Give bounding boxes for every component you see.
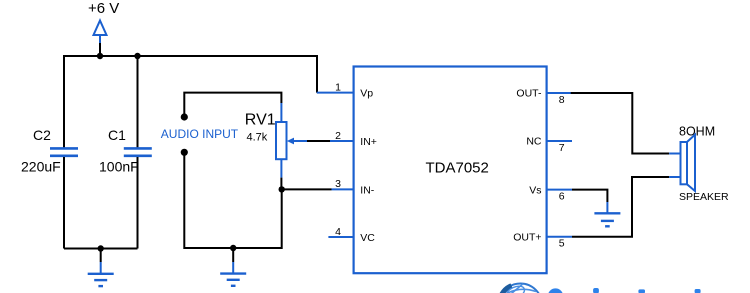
node C1 top junction <box>134 53 140 59</box>
node +6V junction <box>97 53 103 59</box>
node RV1 to IN- junction <box>279 186 285 192</box>
svg-text:OUT-: OUT- <box>516 88 542 100</box>
svg-text:1: 1 <box>335 81 341 93</box>
svg-text:4.7k: 4.7k <box>247 132 268 144</box>
svg-text:Vs: Vs <box>529 184 541 196</box>
svg-text:8: 8 <box>559 94 565 106</box>
ground signal <box>220 262 246 286</box>
wire audio bottom to rail <box>184 152 281 248</box>
node audio input bottom terminal <box>181 149 188 156</box>
op-amp U1 TDA7052 <box>354 67 547 274</box>
svg-text:100nF: 100nF <box>99 159 139 175</box>
wire audio top to RV1 <box>184 93 281 117</box>
svg-text:2: 2 <box>335 130 341 142</box>
svg-text:+6 V: +6 V <box>88 0 119 17</box>
wire pin6 to ground <box>572 190 607 202</box>
wire C1 top lead <box>137 56 139 148</box>
pin 2 IN+ <box>330 130 377 148</box>
wire +6V stem <box>99 43 101 56</box>
speaker LS1 <box>669 125 729 203</box>
svg-text:3: 3 <box>335 178 341 190</box>
svg-text:C1: C1 <box>108 127 126 143</box>
svg-text:C2: C2 <box>33 127 51 143</box>
svg-text:220uF: 220uF <box>21 159 61 175</box>
wire C bottom rail <box>64 248 138 250</box>
pin 1 Vp <box>317 81 374 99</box>
pin 7 NC <box>526 136 572 154</box>
svg-text:OUT+: OUT+ <box>513 232 541 244</box>
svg-text:IN+: IN+ <box>360 136 377 148</box>
ground Vs <box>594 202 620 226</box>
svg-text:AUDIO INPUT: AUDIO INPUT <box>161 127 239 141</box>
wire IN- to pin3 <box>282 188 332 190</box>
wire signal ground stem <box>232 248 234 262</box>
wire C1 bottom lead <box>137 157 139 249</box>
resistor RV1 potentiometer <box>245 103 307 178</box>
wire RV1 bottom lead <box>280 178 282 190</box>
wire pin5 to speaker bottom <box>572 177 669 237</box>
wire top rail to pin1 <box>64 56 317 148</box>
wire wiper to pin2 <box>307 140 330 142</box>
capacitor C1 <box>99 127 152 175</box>
logo globe icon <box>499 284 542 293</box>
node signal ground junction <box>230 245 236 251</box>
ground power <box>88 262 114 286</box>
pin 5 OUT+ <box>513 232 572 250</box>
svg-text:Vp: Vp <box>360 88 373 100</box>
svg-text:VC: VC <box>360 232 375 244</box>
wire pin8 to speaker top <box>571 93 670 154</box>
svg-text:SPEAKER: SPEAKER <box>679 191 729 203</box>
pin 6 Vs <box>529 184 572 202</box>
svg-text:NC: NC <box>526 136 542 148</box>
wire ground stem <box>100 249 102 263</box>
wire C2 bottom lead <box>63 157 65 249</box>
pin 4 VC <box>328 226 375 244</box>
power +6V <box>88 0 119 43</box>
svg-text:RV1: RV1 <box>245 112 276 129</box>
node power ground junction <box>98 245 104 251</box>
capacitor C2 <box>21 127 78 175</box>
svg-text:8OHM: 8OHM <box>679 125 715 139</box>
node audio input top terminal <box>181 113 188 120</box>
svg-text:TDA7052: TDA7052 <box>426 159 489 176</box>
svg-text:4: 4 <box>335 226 341 238</box>
pin 8 OUT- <box>516 88 572 106</box>
svg-text:5: 5 <box>559 238 565 250</box>
svg-text:7: 7 <box>559 142 565 154</box>
svg-text:IN-: IN- <box>360 185 375 197</box>
logo text tops <box>548 288 701 293</box>
pin 3 IN- <box>332 178 375 196</box>
svg-text:6: 6 <box>559 191 565 203</box>
